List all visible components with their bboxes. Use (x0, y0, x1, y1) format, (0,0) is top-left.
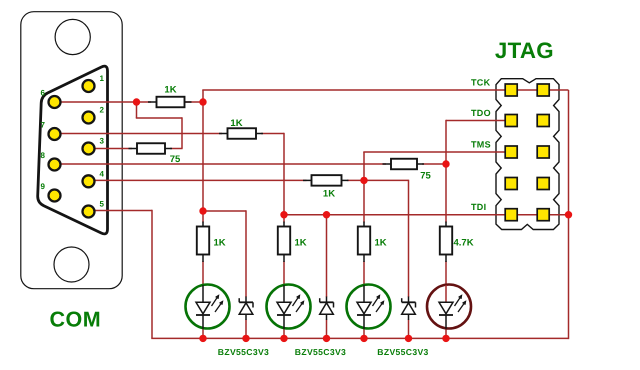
DB9 pin 9 (49, 190, 61, 202)
wire node A across (136, 117, 182, 119)
svg-text:TDI: TDI (471, 202, 486, 212)
resistor R4 75 (TDO series) (383, 159, 425, 170)
JTAG pad GND5 (537, 209, 549, 221)
LED D4 (427, 285, 471, 329)
wire ground riser right (568, 90, 570, 339)
wire ground drop left (151, 210, 153, 339)
svg-text:1K: 1K (295, 238, 307, 249)
junction bus zener D6 (323, 335, 330, 342)
DB9 pin 1 (83, 80, 95, 92)
junction TCK node (199, 98, 206, 105)
svg-text:BZV55C3V3: BZV55C3V3 (377, 347, 428, 357)
junction bus LED4 (442, 335, 449, 342)
wire TMS node down to R8 (363, 180, 365, 222)
wire zener 1 to ground bus (245, 320, 247, 339)
resistor R5 1K (TMS series) (303, 175, 349, 186)
wire DB9 pin7 to R3 (55, 133, 223, 135)
wire LED to ground bus 1 (202, 328, 204, 338)
wire DB9 pin4 to R5 (89, 179, 307, 181)
JTAG pad TCK (505, 84, 517, 96)
zener diode D5 BZV55C3V3 (239, 297, 253, 321)
wire TMS node to zener D7 (364, 179, 409, 181)
svg-text:9: 9 (41, 182, 46, 191)
DB9 pin 2 (83, 112, 95, 124)
svg-text:1K: 1K (164, 85, 176, 96)
wire zener 2 to ground bus (326, 320, 328, 339)
svg-text:TDO: TDO (471, 108, 491, 118)
junction TCK/zener D5 branch (199, 207, 206, 214)
svg-text:75: 75 (420, 171, 431, 182)
COM DB9 connector shell (21, 12, 122, 289)
junction bus zener D7 (405, 335, 412, 342)
DB9 mounting hole top (55, 19, 90, 54)
LED D1 (186, 285, 230, 329)
DB9 pin 4 (83, 175, 95, 187)
DB9 pin 6 (49, 96, 61, 108)
wire zener D5 drop (245, 210, 247, 297)
JTAG pad GND2 (537, 115, 549, 127)
wire DB9 pin8 to R4 (55, 163, 387, 165)
wire R9 to LED (445, 261, 447, 286)
DB9 pin 8 (49, 159, 61, 171)
wire zener 3 to ground bus (408, 320, 410, 339)
JTAG pad TMS (505, 146, 517, 158)
resistor R6 1K (LED series) (197, 222, 209, 263)
svg-text:1K: 1K (230, 118, 242, 129)
svg-text:2: 2 (100, 106, 105, 115)
svg-text:1K: 1K (214, 238, 226, 249)
wire node A down (181, 117, 183, 148)
svg-text:COM: COM (49, 308, 101, 332)
resistor R9 4.7K (LED series) (440, 222, 452, 263)
wire TDO net to JTAG (446, 120, 505, 122)
wire LED to ground bus 3 (363, 328, 365, 338)
junction TMS node (360, 177, 367, 184)
zener diode D6 BZV55C3V3 (320, 297, 334, 321)
svg-text:JTAG: JTAG (495, 38, 554, 63)
wire node A drop (136, 102, 138, 118)
wire node A to R2 (170, 148, 183, 150)
DB9 pin 3 (83, 143, 95, 155)
junction TDI/zener D6 branch (323, 211, 330, 218)
svg-text:BZV55C3V3: BZV55C3V3 (295, 347, 346, 357)
resistor R2 75 (pin3) (129, 143, 173, 154)
wire DB9 pin6 to R1 (55, 101, 152, 103)
svg-text:6: 6 (41, 89, 46, 98)
svg-text:8: 8 (41, 151, 46, 160)
junction TDI at JTAG ground (565, 211, 572, 218)
JTAG pad GND1 (537, 84, 549, 96)
resistor R8 1K (LED series) (358, 222, 370, 263)
junction node A (pin6/R1) (133, 98, 140, 105)
LED D3 (347, 285, 391, 329)
JTAG header outline (496, 79, 559, 230)
wire TDI net to JTAG (284, 214, 569, 216)
zener diode D7 BZV55C3V3 (402, 297, 416, 321)
DB9 mounting hole bottom (54, 247, 89, 282)
svg-text:3: 3 (100, 137, 105, 146)
wire TMS net to JTAG (363, 151, 505, 153)
svg-text:TCK: TCK (471, 77, 491, 87)
wire zener D7 drop (408, 180, 410, 297)
wire TCK node to zener D5 (203, 210, 246, 212)
resistor R7 1K (LED series) (278, 222, 290, 263)
wire TCK node riser (202, 90, 204, 103)
svg-text:1K: 1K (323, 189, 335, 200)
svg-text:1K: 1K (375, 238, 387, 249)
LED D2 (267, 285, 311, 329)
wire R8 to LED (363, 261, 365, 286)
wire R5 to TMS node (347, 179, 364, 181)
svg-text:BZV55C3V3: BZV55C3V3 (218, 347, 269, 357)
wire DB9 pin3 to R2 (89, 148, 133, 150)
wire TDO net vertical (445, 120, 447, 223)
wire LED to ground bus 4 (445, 328, 447, 338)
DB9 D-shell insert (38, 66, 108, 234)
junction TDO node (442, 160, 449, 167)
resistor R3 1K (TDI series) (219, 128, 263, 139)
svg-text:5: 5 (100, 200, 105, 209)
junction TDI node (280, 211, 287, 218)
junction bus LED2 (280, 335, 287, 342)
JTAG pad GND3 (537, 146, 549, 158)
wire R6 to LED (202, 261, 204, 286)
svg-text:75: 75 (170, 154, 181, 165)
DB9 pin 7 (49, 128, 61, 140)
wire ground bus (151, 337, 568, 339)
wire LED to ground bus 2 (283, 328, 285, 338)
svg-text:4: 4 (100, 169, 105, 178)
wire TCK node down to R6 (202, 102, 204, 223)
DB9 pin 5 (83, 206, 95, 218)
wire TCK net to JTAG (202, 89, 568, 91)
wire R3 to corner (261, 133, 284, 135)
svg-text:TMS: TMS (471, 139, 491, 149)
resistor R1 1K (TCK series) (148, 97, 192, 108)
wire R4 to TDO node (422, 163, 446, 165)
wire TMS node riser (363, 152, 365, 181)
wire R7 to LED (283, 261, 285, 286)
svg-text:7: 7 (41, 121, 46, 130)
wire zener D6 drop (326, 215, 328, 297)
wire DB9 pin5 ground (89, 210, 153, 212)
JTAG pad GND4 (537, 178, 549, 190)
junction bus zener D5 (242, 335, 249, 342)
JTAG pad TDI (505, 209, 517, 221)
svg-text:1: 1 (100, 74, 105, 83)
JTAG pad NC (505, 178, 517, 190)
wire R1 to TCK node (184, 101, 203, 103)
wire TDI net drop (283, 133, 285, 223)
junction bus LED3 (360, 335, 367, 342)
junction bus LED1 (199, 335, 206, 342)
svg-text:4.7K: 4.7K (454, 238, 474, 249)
JTAG pad TDO (505, 115, 517, 127)
